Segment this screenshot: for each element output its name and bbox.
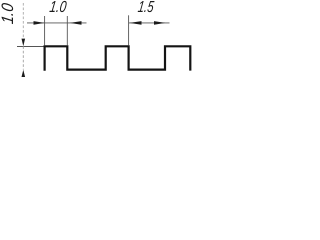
svg-text:1.5: 1.5 xyxy=(137,0,155,16)
svg-text:1.0: 1.0 xyxy=(48,0,67,16)
svg-text:1.0: 1.0 xyxy=(0,1,17,25)
